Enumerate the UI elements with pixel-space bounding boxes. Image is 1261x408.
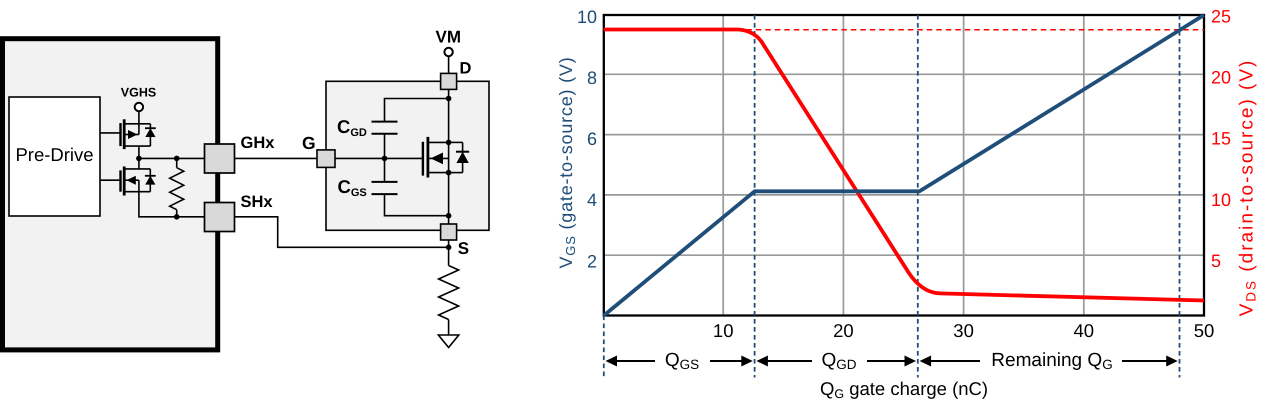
transistor Q2 (low-side N-FET) xyxy=(121,167,156,196)
x axis tick labels xyxy=(713,320,1214,341)
svg-text:50: 50 xyxy=(1194,320,1215,341)
driver IC box U1 xyxy=(3,39,218,350)
pin G xyxy=(317,150,335,168)
ground xyxy=(438,335,458,348)
wire gate line to CGS xyxy=(384,158,386,181)
svg-text:GHx: GHx xyxy=(241,134,276,152)
svg-text:8: 8 xyxy=(587,68,597,88)
node Q3 source xyxy=(446,170,452,176)
svg-text:20: 20 xyxy=(1211,68,1231,88)
svg-text:VGHS: VGHS xyxy=(121,86,156,100)
node R1 top xyxy=(174,156,180,162)
wire GHx to G xyxy=(235,157,318,159)
svg-text:SHx: SHx xyxy=(241,193,274,211)
wire Pre-Drive to Q1 gate xyxy=(100,132,121,134)
wire D to drain node xyxy=(448,89,450,98)
gridlines vertical xyxy=(723,15,1084,316)
body diode D3 xyxy=(462,142,464,172)
svg-text:VDS (drain-to-source) (V): VDS (drain-to-source) (V) xyxy=(1237,59,1259,317)
pin S xyxy=(441,224,457,240)
node CGS source junction xyxy=(446,213,452,219)
wire Q3 source vertical xyxy=(448,142,450,224)
terminal VGHS xyxy=(121,86,156,124)
svg-text:S: S xyxy=(458,239,469,258)
svg-text:6: 6 xyxy=(587,129,597,149)
body diode D2 xyxy=(149,169,151,192)
wire mid node to GHx pin xyxy=(139,157,205,159)
annotation QGD arrow xyxy=(759,360,913,362)
MOSFET package box xyxy=(326,81,489,230)
node drain xyxy=(446,96,452,102)
terminal VM xyxy=(436,27,462,73)
transistor Q1 (high-side P-FET) xyxy=(121,119,156,149)
svg-text:40: 40 xyxy=(1074,320,1095,341)
node S external xyxy=(446,245,452,251)
svg-text:10: 10 xyxy=(713,320,734,341)
resistor R1 (gate-source) xyxy=(170,158,184,216)
dashed red VDS plateau reference line xyxy=(604,29,1204,31)
wire drain vertical xyxy=(448,99,450,143)
capacitor CGS xyxy=(372,182,398,194)
wire SHx to S node xyxy=(235,217,449,248)
resistor R2 (load) xyxy=(439,266,459,336)
wire gate line G to Q3 xyxy=(335,157,423,159)
body diode D1 xyxy=(149,124,151,146)
dashed blue vertical markers xyxy=(604,15,1180,378)
right axis tick labels xyxy=(1211,7,1231,271)
transistor Q3 (external power N-FET) xyxy=(423,137,469,178)
svg-text:4: 4 xyxy=(587,190,597,210)
wire mid node to Q2 drain xyxy=(138,158,140,169)
svg-text:G: G xyxy=(302,133,316,153)
wire drain node to CGD xyxy=(385,99,449,122)
node mid (gate drive node) xyxy=(136,156,142,162)
node R1 bottom xyxy=(174,214,180,220)
Pre-Drive block xyxy=(9,97,100,216)
plot border xyxy=(604,15,1204,316)
node Q3 drain xyxy=(446,140,452,146)
svg-text:D: D xyxy=(460,60,472,78)
wire CGS to source xyxy=(385,194,449,216)
wire S to load resistor xyxy=(448,240,450,266)
node gate xyxy=(382,156,388,162)
pin SHx xyxy=(205,203,235,232)
svg-text:VM: VM xyxy=(436,27,462,46)
svg-text:QG gate charge (nC): QG gate charge (nC) xyxy=(820,378,988,401)
wire Q2 source down and right to SHx xyxy=(139,192,205,217)
svg-text:20: 20 xyxy=(833,320,854,341)
svg-text:Pre-Drive: Pre-Drive xyxy=(15,144,93,165)
curve VGS (blue) xyxy=(604,15,1204,316)
pin GHx xyxy=(205,144,235,173)
svg-text:30: 30 xyxy=(953,320,974,341)
curve VDS (red) xyxy=(604,30,1204,301)
svg-text:10: 10 xyxy=(1211,190,1231,210)
capacitor CGD xyxy=(372,122,398,134)
pin D xyxy=(441,73,457,89)
svg-text:Remaining QG: Remaining QG xyxy=(991,350,1112,372)
svg-text:10: 10 xyxy=(577,7,597,27)
svg-text:2: 2 xyxy=(587,251,597,271)
annotation Remaining QG arrow xyxy=(922,360,1175,362)
wire Q1 drain to mid node xyxy=(138,146,140,158)
svg-text:15: 15 xyxy=(1211,129,1231,149)
wire CGD to gate line xyxy=(384,134,386,159)
svg-text:5: 5 xyxy=(1211,251,1221,271)
left axis tick labels xyxy=(577,7,597,271)
gridlines horizontal xyxy=(604,74,1204,255)
svg-text:25: 25 xyxy=(1211,7,1231,27)
wire Pre-Drive to Q2 gate xyxy=(100,179,121,181)
annotation QGS arrow xyxy=(608,360,750,362)
